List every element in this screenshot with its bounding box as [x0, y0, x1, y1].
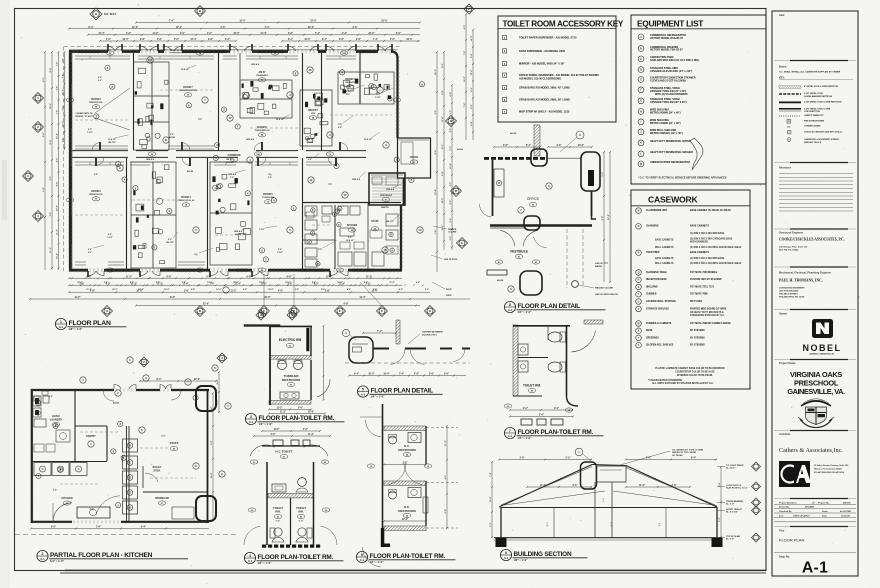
divider above owner [774, 309, 856, 311]
toilet room accessory key box [498, 16, 616, 122]
kitchen interior walls [303, 202, 402, 204]
key row 1 [503, 36, 507, 40]
plan3 right wall upper [310, 326, 312, 356]
fixture cluster [240, 80, 292, 118]
plan4 side tags [250, 460, 258, 464]
plan8 bottom rounded col [520, 271, 542, 295]
plan4 bottom black dash band [262, 545, 266, 548]
plan5 wall segments [373, 348, 389, 350]
plan4 person/toilet top [298, 478, 307, 487]
plan7 left hatched wall [513, 325, 518, 396]
divider above title [774, 526, 856, 528]
plan6 unit2 fixtures [389, 491, 397, 499]
plan3 bottom dims [269, 409, 311, 411]
plan6 unit1 dim [384, 464, 426, 466]
main floor plan [64, 46, 431, 293]
plan3 right wall lower and door arc [310, 360, 312, 400]
top band partition walls [133, 53, 135, 150]
section flat roof top [592, 465, 626, 466]
kitchen bottom-left door arc [53, 503, 72, 522]
kitchen right side dim col full [212, 393, 214, 520]
corridor door swing arcs [92, 143, 100, 151]
key row 3 [503, 62, 507, 66]
crest emblem [798, 399, 834, 428]
plan4 lower persons [274, 528, 282, 536]
vestibule walk-off mat hatch [372, 178, 402, 180]
casework row P [636, 250, 642, 256]
legend hatchbar [779, 86, 801, 89]
equipment row E [638, 77, 644, 83]
plan6 unit1 right wall [425, 426, 427, 464]
hvac fixtures [33, 396, 41, 406]
legend solidbar2 [779, 108, 801, 110]
fixture cluster [338, 72, 394, 104]
fixture cluster [210, 162, 252, 265]
main plan top dimension rows [136, 22, 420, 24]
legend fe [787, 120, 791, 124]
kitchen mid wall and equipment stack [126, 426, 128, 523]
plan6 dashes right [426, 427, 458, 429]
divider above project name [774, 359, 856, 361]
kitchen right exterior wall [400, 205, 402, 271]
kitchen top wall [31, 389, 114, 391]
equipment row C [638, 56, 644, 62]
kitchen hvac extra fixtures [34, 444, 44, 452]
casework row X [636, 328, 642, 334]
kitchen door arcs top [103, 390, 114, 401]
divider above MEP [774, 266, 856, 268]
plan4 bottom corner arcs [244, 526, 260, 545]
plan7 stall divider [518, 357, 548, 359]
equipment row B [638, 46, 644, 52]
equipment row K [638, 140, 644, 146]
plan6 bottom hatch wall [384, 526, 426, 530]
plan8 mid rounded column [524, 216, 540, 230]
section gwb note [575, 448, 583, 456]
equipment row L [638, 151, 644, 157]
fixture cluster [131, 162, 176, 268]
plan8 dashed lines right [566, 229, 568, 288]
left margin scan streaks [0, 0, 10, 588]
plan4 mid hatch band [268, 494, 313, 498]
door leaf marks along corridor [99, 142, 101, 150]
section left dim col [491, 462, 493, 538]
divider above architect [774, 430, 856, 432]
extra ticks bottom dims [71, 284, 73, 286]
section ceiling lines [501, 507, 717, 509]
plan6 unit1 fixtures [389, 436, 397, 444]
casework row Q [636, 270, 642, 276]
plan7 toilets [548, 332, 562, 342]
kitchen right wall [207, 390, 209, 523]
casework row V [636, 306, 642, 312]
plan7 bottom rounded corner [567, 396, 579, 406]
plan8 rounded column top [531, 149, 547, 166]
plan3 top left stub wall [244, 325, 280, 327]
casework row T [636, 291, 642, 297]
equipment row M [638, 161, 644, 167]
divider above revisions [774, 162, 856, 164]
plan4 left wall [266, 462, 268, 545]
CA logo [779, 461, 810, 487]
equipment row G [638, 98, 644, 104]
casework bands along room walls [75, 55, 130, 57]
main plan left dimension columns [44, 52, 46, 270]
plan3 top wall [270, 325, 312, 327]
legend dashbar [779, 93, 801, 95]
casework box [631, 190, 750, 389]
equipment arrow bracket [690, 138, 703, 170]
left exterior wall [69, 50, 72, 271]
plan7 bottom dims [510, 409, 573, 411]
top exterior wall [69, 50, 108, 53]
key row 4 [503, 73, 507, 77]
kitchen scattered circles [127, 357, 133, 363]
key row 2 [503, 49, 507, 53]
plan6 unit2 top hatch wall [384, 481, 426, 485]
legend sq [788, 131, 791, 134]
window double lines on exterior walls [78, 49, 100, 51]
toilet plan label 3 [245, 413, 256, 424]
toilet plan 3 electric room [244, 310, 330, 415]
section footings [496, 538, 507, 547]
equipment row J [638, 129, 644, 135]
divider above info table [774, 498, 856, 500]
plan6 unit2 dim [384, 520, 426, 522]
equipment row F [638, 87, 644, 93]
toilet plan label 4 [244, 552, 255, 563]
plan8 top wall heavy [484, 157, 489, 160]
kitchen masonry ticks [30, 389, 206, 524]
plan3 sink counter [280, 392, 299, 399]
plan4 right wall [313, 462, 315, 545]
legend ci [787, 138, 791, 142]
floor plan label 1 [55, 318, 66, 329]
bottom band partition walls [126, 158, 128, 269]
office interior [401, 142, 413, 164]
casework row R [636, 277, 642, 283]
plan7 right wall [566, 325, 568, 396]
divider above structural [774, 228, 856, 230]
plan4 top dims and stubs [262, 430, 320, 432]
casework row S [636, 284, 642, 290]
plan8 right rounded structure [581, 152, 600, 191]
casework row O [636, 224, 642, 230]
section walls [500, 507, 502, 538]
section roof right slope [626, 466, 717, 508]
plan8 left casework [494, 169, 504, 197]
NOBEL logo [812, 319, 833, 338]
partial kitchen plan [15, 353, 238, 535]
kitchen island [77, 507, 110, 518]
plan7 top wall [513, 325, 570, 327]
kitchen equipment rects [305, 206, 317, 216]
toilet plan label 7 [504, 427, 515, 438]
bottom wall door swing bumps [88, 271, 96, 276]
page grain overlay [0, 0, 1, 1]
plan4 center divider wall [290, 498, 292, 545]
kitchen left wall [31, 389, 33, 523]
dashed roof overhang line [64, 46, 400, 48]
wall tag ovals [106, 51, 114, 55]
plan5 door arcs [390, 349, 405, 365]
plan5 dashed centerline [345, 362, 470, 364]
plan4 big door arcs top [250, 445, 275, 456]
plan6 left door arc [366, 420, 382, 437]
floor plan detail label 5 [357, 386, 368, 397]
bottom exterior wall [69, 269, 88, 272]
corridor walls [72, 150, 128, 152]
plan8 left wall [492, 160, 494, 216]
fixture cluster [134, 62, 170, 150]
right side secondary dim chain [465, 14, 467, 140]
equipment row H [638, 109, 644, 115]
plan8 long wall [490, 224, 592, 226]
revision ruled lines [779, 173, 853, 175]
office vestibule detail 8 [479, 125, 617, 296]
plan5 column wrap [349, 337, 373, 363]
counter returns [89, 56, 91, 59]
extra symbol circles main plan [122, 177, 127, 182]
main plan bottom dimension rows [69, 277, 402, 279]
fixture cluster [300, 90, 332, 146]
divider above notes [774, 60, 856, 62]
casework row Z [636, 342, 642, 348]
plan7 bottom stubs [521, 419, 532, 425]
vestibule walls [369, 173, 405, 205]
equipment row A [638, 34, 644, 40]
dashed interior lines [75, 119, 130, 121]
floor plan detail 5 [342, 320, 470, 377]
plan3 bottom hatched wall [269, 401, 311, 405]
sprinkler room [143, 491, 207, 493]
plan8 door arc left [479, 204, 491, 217]
key row 5 [503, 86, 507, 90]
equipment row D [638, 67, 644, 73]
plan7 door arc top right [571, 331, 596, 353]
plan6 unit1 top hatch wall [384, 426, 426, 430]
section roof dims [499, 459, 592, 461]
main plan right dimension columns [436, 52, 438, 272]
plan6 left wall [382, 404, 384, 528]
toilet plan label 6 [356, 551, 367, 562]
section cupola [581, 462, 597, 489]
kitchen plan label 2 [37, 550, 48, 561]
office extension walls [398, 138, 431, 178]
wall below office to vestibule [403, 178, 405, 206]
masonry ticks along exterior walls [68, 49, 403, 272]
plan5 hatched wall stub vertical [396, 320, 400, 344]
legend dotbar [779, 115, 801, 117]
building section label 9 [500, 549, 511, 560]
plan8 top hatch band vertical [534, 125, 540, 156]
kitchen extra clutter [340, 242, 350, 249]
kitchen dashed cut line [15, 534, 238, 536]
plan8 left stubs [487, 270, 507, 275]
plan3 toilets [277, 360, 286, 369]
plan6 mid double door arcs [388, 463, 406, 485]
top wall door swing bumps [108, 46, 115, 51]
info table [774, 503, 856, 505]
kitchen bottom door arc bigger [96, 496, 120, 515]
plan3 left wall [269, 326, 271, 405]
kitchen top dim line [140, 380, 216, 382]
section roof left slope [499, 465, 592, 508]
legend solidbar [779, 101, 801, 103]
plan6 unit2 right wall [425, 481, 427, 526]
equipment list box [631, 15, 766, 184]
grid bubble diamonds [90, 8, 102, 20]
key row 6 [503, 98, 507, 102]
plan8 right wall lower [591, 191, 593, 216]
kitchen casework row A B C [34, 463, 51, 476]
equipment row I [638, 119, 644, 125]
section floor line [494, 537, 722, 539]
building section 9 [489, 448, 760, 547]
kitchen diamonds [139, 357, 149, 367]
plan3 electric panel bar [307, 328, 310, 351]
kitchen corner column wraps [196, 386, 216, 411]
plan8 right dim columns [603, 152, 605, 282]
toilet plan 6 hc restrooms [360, 404, 458, 567]
plan8 vestibule door arcs [500, 230, 515, 246]
leader lines to bottom diamonds [263, 274, 265, 305]
casework row U [636, 299, 642, 305]
door leaves top and bottom walls [107, 44, 109, 51]
hvac laundry room walls [74, 390, 76, 461]
kitchen dim bottom [31, 528, 209, 530]
floor plan detail label 8 [504, 301, 515, 312]
casework row W [636, 321, 642, 327]
toilet plan 7 [504, 320, 603, 425]
toilet plan 4 [244, 429, 337, 548]
kitchen bottom wall [31, 521, 72, 523]
scattered symbol circles [147, 57, 153, 63]
casework row N [636, 208, 642, 214]
plan3 hatched wall band [270, 356, 311, 360]
plan8 top dims [494, 146, 540, 148]
plan6 bottom left arc [363, 547, 381, 567]
vestibule interior fixtures [372, 177, 382, 184]
plan6 thick black corner bottom [381, 528, 390, 547]
plan5 dims [363, 332, 396, 334]
right exterior wall with rounded top corner [391, 52, 398, 59]
casework row Y [636, 335, 642, 341]
title block column [772, 11, 858, 577]
plan7 sinks [518, 344, 528, 355]
section interior verticals [594, 482, 596, 538]
plan8 welded column symbol [572, 281, 579, 288]
key row 7 [503, 110, 507, 114]
